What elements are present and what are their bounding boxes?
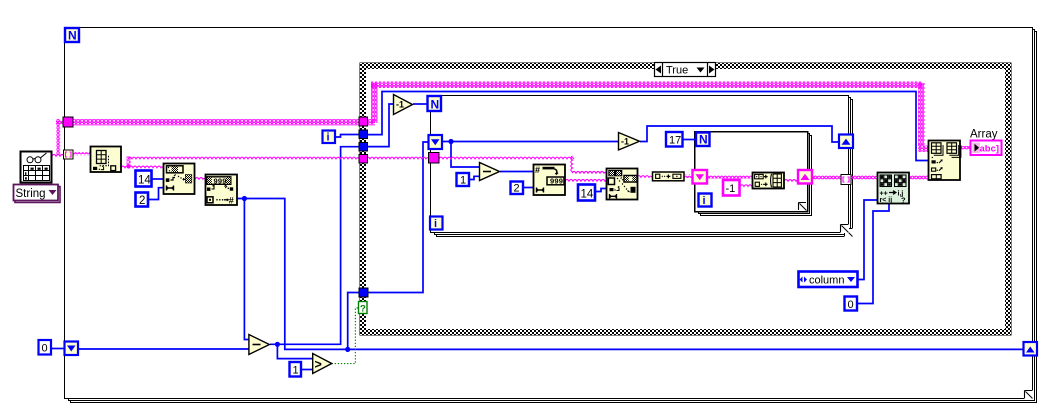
svg-text:i: i: [327, 132, 330, 144]
svg-text:14: 14: [138, 175, 151, 187]
svg-text:?: ?: [360, 304, 366, 315]
svg-text:-1: -1: [621, 137, 629, 147]
svg-text:?: ?: [901, 196, 906, 205]
svg-text:column: column: [809, 275, 844, 287]
svg-text:i: i: [703, 195, 706, 207]
svg-text:#: #: [229, 195, 234, 205]
svg-text:>: >: [315, 358, 322, 372]
svg-text:True: True: [666, 65, 688, 77]
svg-text:String: String: [16, 188, 46, 200]
svg-text:2: 2: [514, 183, 520, 195]
svg-text:abc]: abc]: [980, 144, 1000, 155]
svg-text:Array: Array: [970, 129, 998, 141]
svg-text:#: #: [535, 165, 540, 175]
svg-text:17: 17: [669, 135, 681, 147]
svg-text:N: N: [431, 98, 440, 112]
svg-text:N: N: [68, 29, 77, 43]
svg-text:999: 999: [214, 176, 227, 185]
svg-text:N: N: [699, 133, 708, 147]
svg-text:i: i: [434, 218, 437, 230]
svg-text:r< ij: r< ij: [880, 197, 893, 204]
svg-text:999: 999: [550, 176, 563, 185]
svg-text:0: 0: [848, 299, 854, 311]
svg-text:1: 1: [293, 365, 299, 377]
svg-text:-1: -1: [396, 100, 404, 110]
svg-text:2: 2: [139, 195, 145, 207]
svg-text:1: 1: [460, 175, 466, 187]
svg-text:-1: -1: [726, 183, 736, 195]
svg-text:0: 0: [42, 343, 48, 355]
svg-text:14: 14: [581, 189, 594, 201]
